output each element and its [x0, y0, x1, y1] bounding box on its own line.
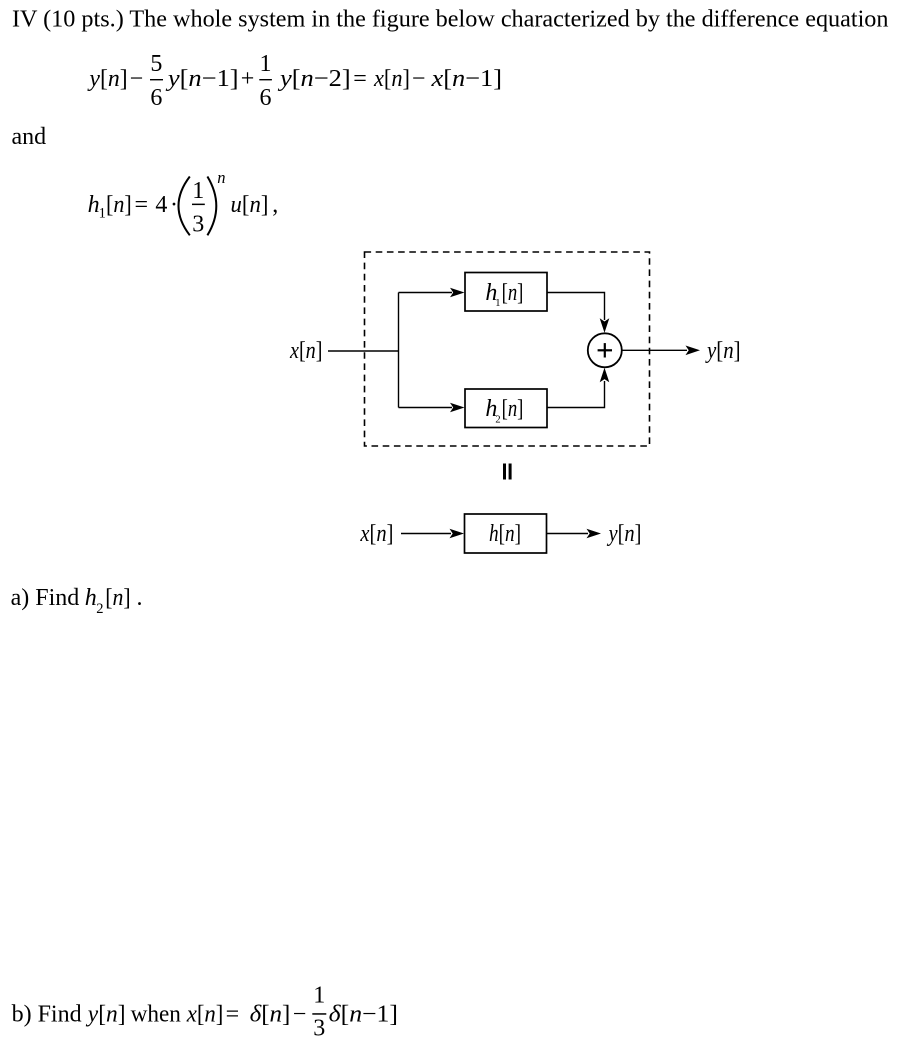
- svg-text:y[n]: y[n]: [86, 1002, 126, 1028]
- wire: branch vertical at junction: [398, 293, 400, 408]
- equivalence mark || right bar: [509, 464, 512, 480]
- svg-text:1: 1: [260, 51, 272, 77]
- arrowhead into summer bottom: [600, 368, 610, 383]
- svg-text:[n]: [n]: [106, 192, 132, 218]
- wire: h block output to y[n]: [547, 533, 589, 535]
- svg-text:x[n]: x[n]: [186, 1002, 224, 1028]
- block h[n]: [465, 514, 547, 553]
- svg-text:6: 6: [260, 85, 272, 111]
- equation 1: y[n] - 5/6 y[n-1] + 1/6 y[n-2] = x[n] - x[n-1]: [87, 51, 502, 111]
- svg-text:2: 2: [495, 414, 500, 425]
- wire: branch to h1: [399, 292, 453, 294]
- arrowhead into h2: [450, 403, 465, 413]
- a) line: [11, 585, 143, 617]
- svg-text:6: 6: [150, 85, 162, 111]
- wire: h2 output to summer: [547, 381, 605, 408]
- big right paren: [207, 177, 216, 236]
- arrowhead output y[n] (diagram 2): [587, 529, 602, 539]
- svg-text:−: −: [412, 66, 426, 92]
- svg-text:4: 4: [155, 192, 167, 218]
- block label h2[n]: [485, 396, 523, 425]
- svg-text:when: when: [131, 1002, 181, 1028]
- wire: branch to h2: [399, 407, 453, 409]
- svg-text:[n]: [n]: [105, 585, 130, 611]
- big left paren: [179, 177, 190, 236]
- svg-text:1: 1: [192, 178, 204, 204]
- svg-text:[n]: [n]: [502, 396, 524, 422]
- svg-text:a) Find: a) Find: [11, 585, 80, 611]
- block label h1[n]: [485, 280, 523, 309]
- svg-text:=: =: [353, 66, 367, 92]
- svg-text:δ[n]: δ[n]: [250, 1002, 291, 1028]
- svg-text:x[n]: x[n]: [373, 66, 410, 92]
- svg-text:[n]: [n]: [502, 280, 524, 306]
- svg-text:y[n−1]: y[n−1]: [166, 66, 239, 92]
- svg-text:.: .: [137, 585, 143, 611]
- svg-text:y[n−2]: y[n−2]: [278, 66, 351, 92]
- svg-text:1: 1: [99, 206, 106, 222]
- equation 2: h1[n] = 4 . (1/3)^n u[n],: [88, 168, 279, 238]
- svg-text:y[n]: y[n]: [705, 338, 740, 364]
- arrowhead into h1: [450, 288, 465, 298]
- svg-text:x[n−1]: x[n−1]: [430, 66, 502, 92]
- svg-text:y[n]: y[n]: [87, 66, 127, 92]
- svg-text:x[n]: x[n]: [289, 338, 322, 364]
- svg-text:,: ,: [272, 192, 278, 218]
- svg-text:−: −: [130, 66, 144, 92]
- svg-text:=: =: [135, 192, 149, 218]
- arrowhead into h block: [450, 529, 465, 539]
- svg-text:and: and: [12, 124, 47, 150]
- block h1[n]: [465, 273, 547, 312]
- svg-text:5: 5: [150, 51, 162, 77]
- svg-text:·: ·: [170, 192, 178, 218]
- b) line: [12, 983, 398, 1042]
- svg-text:y[n]: y[n]: [607, 521, 642, 547]
- svg-text:+: +: [241, 66, 255, 92]
- dashed system box: [365, 252, 650, 446]
- svg-text:1: 1: [313, 983, 325, 1009]
- svg-text:=: =: [226, 1002, 240, 1028]
- svg-text:2: 2: [96, 601, 103, 617]
- arrowhead output y[n]: [686, 346, 701, 356]
- svg-text:h: h: [85, 585, 97, 611]
- svg-text:δ[n−1]: δ[n−1]: [329, 1002, 398, 1028]
- svg-text:3: 3: [313, 1015, 325, 1041]
- block h2[n]: [465, 389, 547, 428]
- svg-text:h[n]: h[n]: [489, 521, 521, 547]
- equivalence mark || left bar: [503, 464, 506, 480]
- wire: summer output to y[n]: [622, 349, 687, 351]
- wire: input from x[n]: [328, 350, 399, 352]
- svg-text:3: 3: [192, 212, 204, 238]
- svg-text:n: n: [217, 168, 225, 187]
- svg-text:x[n]: x[n]: [360, 521, 394, 547]
- svg-text:u[n]: u[n]: [231, 192, 269, 218]
- wire: h1 output to summer: [547, 293, 605, 321]
- svg-text:b) Find: b) Find: [12, 1002, 82, 1028]
- plus sign of summer: [598, 343, 612, 357]
- svg-text:−: −: [293, 1002, 307, 1028]
- arrowhead into summer top: [600, 318, 610, 333]
- svg-text:1: 1: [495, 298, 500, 309]
- summer (adder circle): [588, 333, 622, 367]
- svg-text:IV (10 pts.) The whole system: IV (10 pts.) The whole system in the fig…: [12, 6, 889, 33]
- wire: x[n] into h block: [401, 533, 451, 535]
